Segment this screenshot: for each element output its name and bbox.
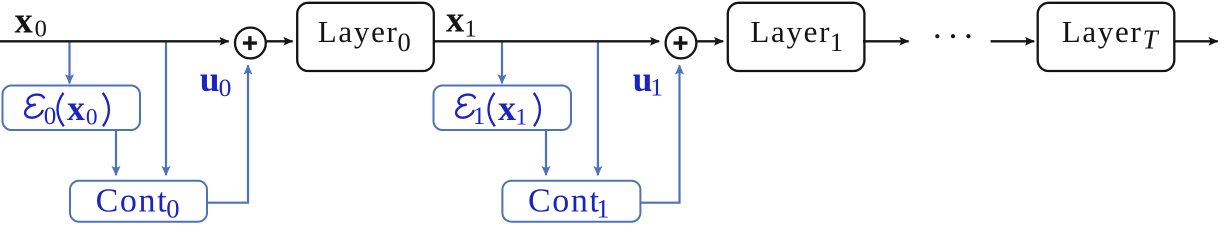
summing junction S0 [235, 28, 266, 59]
summing junction S1 [666, 28, 697, 59]
svg-text:1: 1 [650, 73, 663, 102]
block encoder E1 [434, 86, 572, 131]
block Cont1 [502, 181, 640, 224]
wire tap x1 to encoder E1 [501, 42, 503, 83]
svg-text:0: 0 [398, 27, 411, 57]
wire input to adder S0 [0, 40, 229, 42]
block encoder E0 [3, 86, 141, 131]
svg-text:1: 1 [464, 15, 476, 42]
svg-text:1: 1 [473, 103, 486, 130]
svg-text:1: 1 [830, 27, 843, 57]
wire tap x0 to encoder E0 [68, 42, 70, 83]
svg-text:0: 0 [44, 103, 57, 130]
block LayerT [1038, 3, 1175, 71]
glyph script E1 [456, 95, 475, 118]
wire Layer1 to dots [863, 40, 909, 42]
block Cont0 [70, 181, 207, 224]
block Layer0 [297, 3, 434, 71]
wire tap line to Cont1 [597, 42, 599, 175]
svg-text:0: 0 [219, 73, 232, 102]
svg-text:x: x [446, 0, 465, 40]
svg-text:x: x [67, 88, 85, 128]
wire S0 to Layer0 [267, 40, 293, 42]
glyph script E0 [25, 95, 44, 118]
wire tap line to Cont0 [165, 42, 167, 175]
svg-text:1: 1 [596, 194, 609, 224]
svg-text:Layer: Layer [318, 14, 399, 49]
svg-text:1: 1 [516, 105, 528, 131]
wire Cont1 feedback to S1 [640, 65, 679, 202]
svg-text:Cont: Cont [96, 183, 169, 220]
svg-text:Layer: Layer [1062, 14, 1143, 49]
svg-text:0: 0 [35, 16, 47, 43]
wire S1 to Layer1 [697, 40, 723, 42]
wire dots to LayerT [991, 40, 1035, 42]
node ellipsis dots [935, 34, 970, 38]
node x0 label [15, 0, 47, 43]
node x1 label [446, 0, 477, 42]
svg-text:0: 0 [166, 194, 179, 224]
wire E1 to Cont1 [545, 130, 547, 175]
svg-text:x: x [498, 88, 516, 128]
svg-text:Cont: Cont [528, 183, 601, 220]
wire Cont0 feedback to S0 [207, 65, 248, 202]
svg-text:0: 0 [86, 105, 98, 131]
svg-text:Layer: Layer [750, 14, 831, 49]
svg-text:x: x [15, 0, 34, 40]
wire E0 to Cont0 [115, 130, 117, 175]
wire LayerT output [1174, 40, 1217, 42]
wire Layer0 to adder S1 [434, 40, 659, 42]
node u0 label [200, 59, 232, 102]
svg-text:u: u [200, 59, 220, 99]
node u1 label [633, 59, 663, 102]
svg-text:T: T [1143, 25, 1160, 55]
block Layer1 [728, 3, 865, 71]
